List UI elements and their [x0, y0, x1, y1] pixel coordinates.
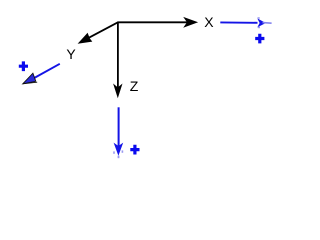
- svg-text:X: X: [204, 14, 214, 30]
- svg-text:Y: Y: [66, 46, 76, 62]
- svg-text:Z: Z: [130, 78, 139, 94]
